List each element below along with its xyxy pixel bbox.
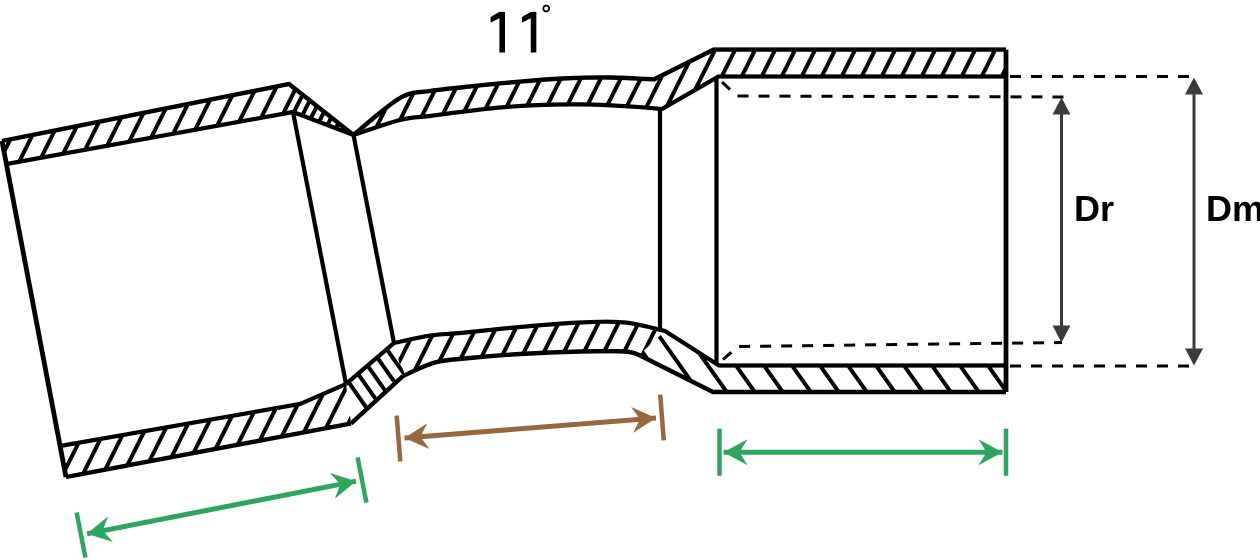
dashed extension top (Dm) [1010,75,1197,78]
step line B [354,135,395,343]
green dimension arrow under left socket [77,457,367,557]
pipe bottom outer + step + socket bottom outer [403,351,1006,392]
svg-text:Dm: Dm [1206,188,1260,229]
dashed bore line top [722,82,1068,97]
dashed bore line bottom [723,343,1062,360]
11 degrees label [491,12,505,53]
outline: left socket top inner [7,112,294,164]
outline: left mouth edge [2,141,66,477]
left socket notch inner line [293,112,354,135]
right socket shoulder line C [658,110,662,329]
outline: left socket top outer + notch [2,84,354,141]
right socket bottom wall + step (mirrored hatch region) [639,331,1006,392]
right socket mouth edge [1004,50,1009,392]
bottom step inner diagonal [346,343,394,384]
right socket stop face line D [714,77,718,365]
dashed extension bottom (Dm) [1010,365,1197,368]
outline: left socket bottom inner [60,384,346,446]
outline: left socket bottom outer [66,424,351,478]
pipe fitting top wall (hatched region) [2,50,1006,164]
Dm dimension arrow [1185,78,1203,366]
pipe bottom wall (hatched region) [394,322,665,376]
pipe bottom inner + step inner + socket bottom inner [394,322,1006,366]
degree symbol [543,6,549,12]
notch wedge extra hatch (denser) [289,84,354,135]
bottom step outer diagonal [351,376,403,424]
green dimension arrow under right socket [720,429,1007,476]
brown dimension arrow under middle pipe [397,395,664,462]
svg-text:Dr: Dr [1074,188,1114,229]
socket shoulder line A [293,112,346,384]
Dr dimension arrow [1053,98,1071,343]
left socket bottom wall (hatched region) [60,384,351,477]
pipe top outer + right step + socket top outer [354,50,1007,135]
pipe top inner + step inner + socket top inner [354,77,1007,136]
